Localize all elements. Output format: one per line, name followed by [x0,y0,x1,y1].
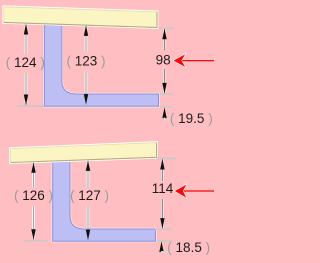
dimension 123 bottom arrow [84,94,88,105]
svg-text:( 126 ): ( 126 ) [14,188,53,203]
dimension 18.5 extension tick [156,240,171,242]
top plate (top view) [4,7,157,28]
L-bracket white halo (bottom view) [53,160,156,241]
dimension 124 bottom arrow [24,95,28,106]
dimension 127 bottom arrow [86,230,90,241]
dimension 126 line [32,164,35,238]
dimension 19.5 arrow [162,107,166,118]
svg-text:( 123 ): ( 123 ) [66,53,105,68]
callout red arrow (114) [175,185,214,198]
dimension 19.5 extension tick [159,106,172,108]
dimension 123 line [85,27,88,94]
dimension 18.5 arrow [159,241,163,252]
dimension 19.5 leader [165,118,173,120]
dimension 127 line [87,162,90,229]
callout red arrow (98) [174,54,214,67]
dimension 114 extension tick bottom [155,228,173,230]
L-bracket (bottom view) [53,160,156,241]
bottom plate shaded bottom edge [11,143,157,163]
svg-text:114: 114 [152,181,174,196]
L-bracket white halo (top view) [44,22,158,106]
svg-text:( 18.5 ): ( 18.5 ) [167,240,210,255]
dimension 98 extension tick top [159,27,174,29]
dimension 114 bottom arrow [160,218,164,229]
svg-text:( 124 ): ( 124 ) [6,55,45,70]
dimension 114 line [161,160,164,229]
svg-text:( 127 ): ( 127 ) [70,188,109,203]
dimension 123 top arrow [84,25,88,36]
bottom plate [11,143,157,163]
L-bracket (top view) [44,22,158,106]
dimension 18.5 leader [162,250,172,253]
dimension 114 extension tick top [157,157,177,159]
dimension 98 bottom arrow [162,83,166,94]
dimension 124 extension tick [17,105,44,107]
top plate white halo (top view) [4,7,157,28]
dimension 124 line [25,26,28,103]
dimension 126 top arrow [31,162,35,173]
dimension 98 top arrow [162,29,166,40]
dimension 124 top arrow [24,24,28,35]
dimension 114 top arrow [160,159,164,170]
dimension 98 line [163,29,166,93]
top plate shaded bottom edge [4,12,157,28]
dimension 126 bottom arrow [31,229,35,240]
dimension 98 extension tick bottom [160,93,174,95]
svg-text:98: 98 [156,52,171,67]
bottom plate white halo [11,143,157,163]
dimension 127 top arrow [86,160,90,171]
svg-text:( 19.5 ): ( 19.5 ) [170,111,213,126]
dimension 126 extension tick [25,240,48,242]
